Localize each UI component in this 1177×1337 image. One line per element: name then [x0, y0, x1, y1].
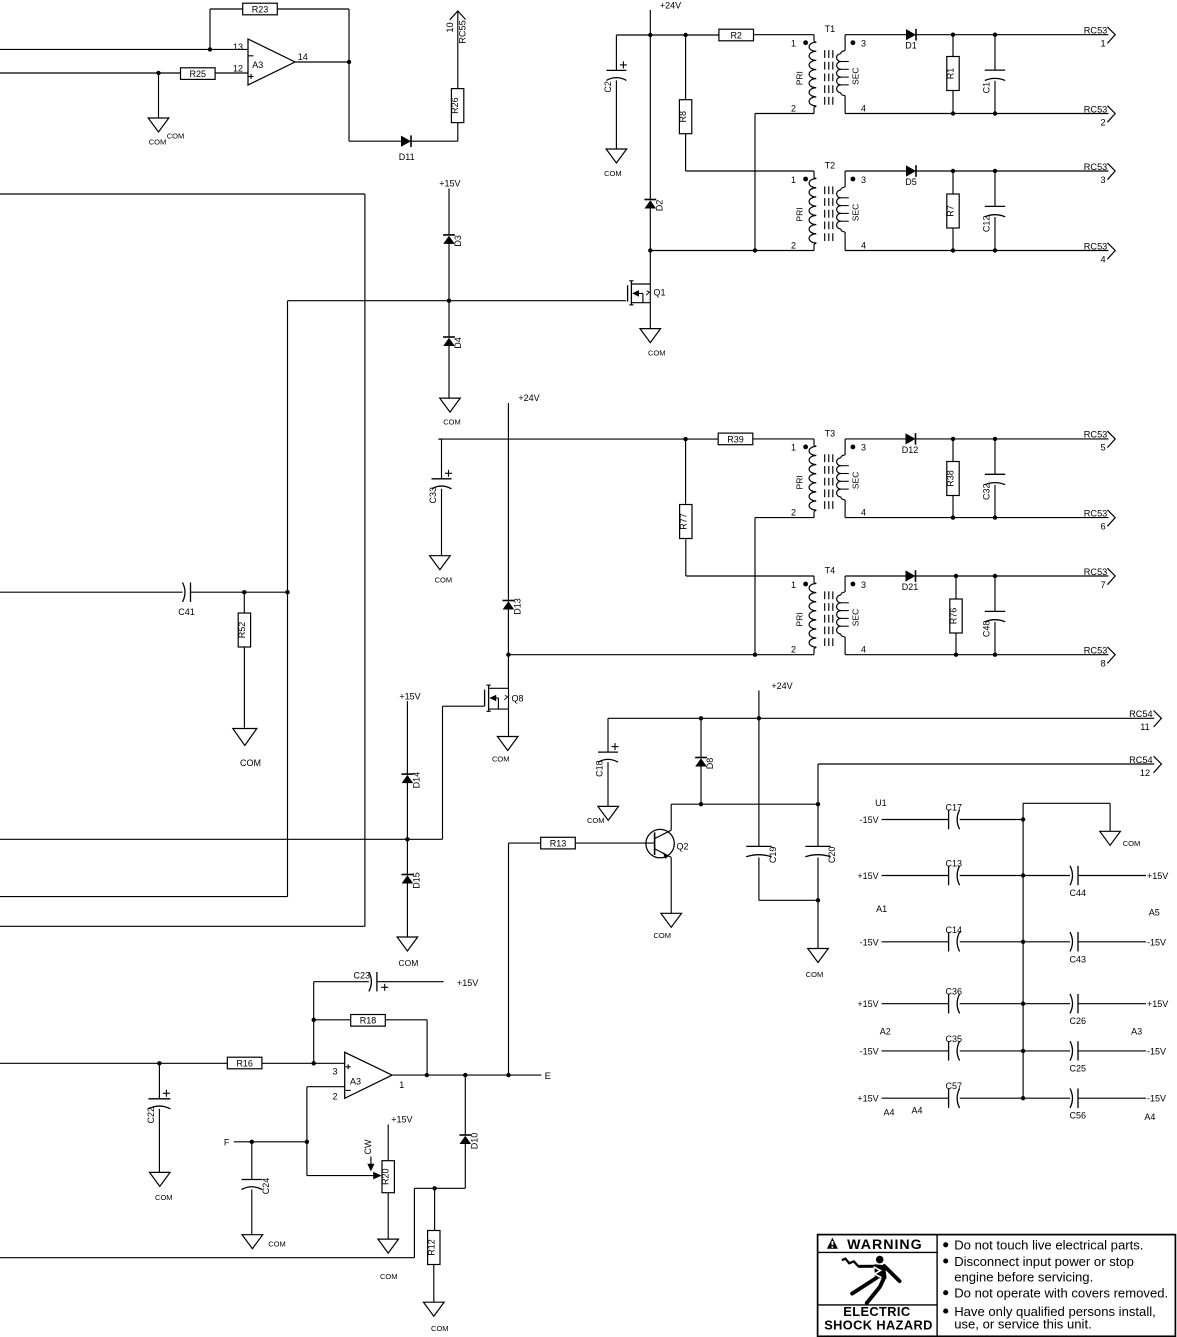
- connector RC53 pin 4: [1084, 241, 1115, 264]
- svg-text:+15V: +15V: [857, 871, 878, 881]
- svg-text:engine before servicing.: engine before servicing.: [954, 1270, 1093, 1285]
- svg-text:R39: R39: [727, 434, 744, 444]
- label A5: [1149, 907, 1160, 917]
- svg-text:2: 2: [791, 240, 796, 250]
- svg-text:2: 2: [791, 507, 796, 517]
- ground COM under Q8: [492, 737, 518, 764]
- svg-text:WARNING: WARNING: [847, 1237, 923, 1253]
- label A2: [880, 1027, 891, 1037]
- wire +24V rail upper: [649, 10, 651, 200]
- transformer T1: [791, 24, 866, 113]
- node junction bus row 3: [1021, 940, 1025, 944]
- svg-text:COM: COM: [240, 758, 261, 768]
- wire Q2 emitter to ground: [670, 857, 672, 913]
- node junction bus row 5: [1021, 1049, 1025, 1053]
- svg-text:D12: D12: [902, 445, 919, 455]
- node junction R1 top: [951, 33, 955, 37]
- svg-text:COM: COM: [587, 816, 605, 825]
- svg-text:PRI: PRI: [794, 207, 804, 221]
- node junction C48 bottom: [993, 653, 997, 657]
- connector RC54 pin 11: [1129, 709, 1161, 732]
- svg-text:R2: R2: [730, 30, 742, 40]
- wire R12 to ground: [433, 1264, 435, 1302]
- svg-text:D14: D14: [411, 772, 421, 789]
- wire +15V stub to D14: [406, 701, 408, 774]
- ground COM under D15: [397, 937, 418, 968]
- svg-text:A1: A1: [876, 904, 887, 914]
- svg-text:D11: D11: [399, 152, 415, 162]
- wire R20 to ground: [387, 1193, 389, 1239]
- svg-text:D3: D3: [453, 235, 463, 247]
- capacitor C14 row: [860, 925, 1024, 952]
- node junction R1 bottom: [951, 111, 955, 115]
- wire T1 sec top to D1: [845, 34, 906, 36]
- diode D11: [399, 135, 415, 162]
- svg-text:C20: C20: [827, 847, 837, 864]
- wire input line to op-amp A3 pin 13: [0, 48, 248, 50]
- svg-text:D10: D10: [469, 1133, 479, 1150]
- svg-text:C36: C36: [946, 987, 963, 997]
- svg-text:D15: D15: [411, 872, 421, 889]
- svg-text:COM: COM: [435, 576, 453, 585]
- ground COM under Q2: [653, 913, 681, 940]
- svg-text:-15V: -15V: [1147, 937, 1166, 947]
- node junction R76 top: [954, 574, 958, 578]
- node junction F line: [305, 1140, 309, 1144]
- wire R26 up to connector RC55: [457, 12, 459, 89]
- svg-text:R8: R8: [678, 111, 688, 123]
- ground COM under R12: [424, 1302, 449, 1333]
- svg-text:+15V: +15V: [391, 1115, 412, 1125]
- wire T1 sec bottom rail: [845, 113, 1108, 115]
- svg-text:-15V: -15V: [860, 815, 879, 825]
- svg-text:C22: C22: [146, 1107, 156, 1124]
- ground COM under Q1: [640, 329, 666, 358]
- svg-text:C35: C35: [946, 1034, 963, 1044]
- svg-text:RC53: RC53: [1084, 430, 1108, 440]
- resistor R39: [686, 433, 814, 445]
- svg-text:R20: R20: [381, 1168, 391, 1185]
- capacitor C44 row: [1023, 866, 1168, 898]
- node junction T1 pin2 drop: [753, 248, 757, 252]
- transistor Q2 (BJT): [646, 829, 689, 858]
- wire +24V stub: [758, 691, 760, 719]
- capacitor C26 row: [1023, 994, 1168, 1026]
- svg-text:1: 1: [1100, 39, 1105, 49]
- wire output down-right to D11: [349, 62, 402, 141]
- svg-text:C26: C26: [1070, 1016, 1087, 1026]
- diode D10: [459, 1133, 479, 1150]
- svg-text:1: 1: [791, 443, 796, 453]
- wire C33 line: [438, 438, 685, 440]
- diode D12: [902, 433, 919, 455]
- svg-text:C48: C48: [982, 621, 992, 638]
- ground COM under C18: [587, 806, 619, 825]
- svg-text:3: 3: [1100, 175, 1105, 185]
- svg-text:C14: C14: [946, 925, 963, 935]
- node junction on pin-12 line: [156, 71, 160, 75]
- label A4 left a: [883, 1108, 894, 1118]
- wire capacitor-bank common bus: [1022, 803, 1024, 1098]
- svg-text:C43: C43: [1070, 954, 1087, 964]
- electric shock icon: [842, 1256, 900, 1303]
- node junction bus row 6: [1021, 1096, 1025, 1100]
- resistor R16: [227, 1057, 262, 1069]
- label A4 right: [1144, 1112, 1155, 1122]
- svg-text:COM: COM: [604, 169, 622, 178]
- connector RC53 pin 1: [1084, 26, 1115, 49]
- wire T3 pin2 drop: [755, 518, 814, 655]
- node junction rail/T2 pin 2 line: [648, 248, 652, 252]
- svg-text:R52: R52: [237, 622, 247, 639]
- svg-text:R26: R26: [450, 97, 460, 114]
- svg-text:R7: R7: [946, 205, 956, 217]
- svg-text:COM: COM: [1123, 839, 1141, 848]
- svg-text:RC54: RC54: [1129, 755, 1153, 765]
- svg-text:C17: C17: [946, 803, 963, 813]
- diode D5: [905, 165, 917, 187]
- svg-text:F: F: [224, 1137, 230, 1147]
- svg-text:14: 14: [298, 52, 308, 62]
- ground COM under C22: [150, 1172, 173, 1202]
- node junction R38 bottom: [951, 515, 955, 519]
- node junction C32 bottom: [993, 515, 997, 519]
- resistor R38: [946, 439, 960, 518]
- connector RC53 pin 5: [1084, 430, 1115, 453]
- capacitor C32: [982, 439, 1006, 518]
- svg-text:PRI: PRI: [794, 71, 804, 85]
- resistor R52: [237, 613, 251, 647]
- wire wiper leg: [307, 1175, 374, 1177]
- wire +15V to D3: [448, 189, 450, 235]
- capacitor C25 row: [1023, 1041, 1166, 1073]
- resistor R26: [450, 89, 464, 123]
- svg-text:A4: A4: [1144, 1112, 1155, 1122]
- svg-text:T1: T1: [825, 24, 836, 34]
- connector RC55 pin 10: [445, 11, 467, 44]
- capacitor C23: [314, 971, 444, 992]
- svg-text:5: 5: [1100, 443, 1105, 453]
- node junction D10 tap: [463, 1073, 467, 1077]
- connector RC53 pin 7: [1084, 567, 1115, 590]
- diode D13: [503, 598, 523, 615]
- node junction C12 top: [993, 169, 997, 173]
- wire F line: [234, 1141, 307, 1143]
- capacitor C20: [805, 764, 837, 900]
- wire Q8 drain-source rail: [508, 688, 510, 736]
- wire D4 to ground: [448, 346, 450, 398]
- wire T4 sec top to D21: [845, 575, 905, 577]
- transistor Q1 (MOSFET): [628, 281, 666, 305]
- svg-text:C13: C13: [946, 859, 963, 869]
- label CW: [363, 1139, 373, 1154]
- ground COM under D4: [440, 398, 461, 427]
- svg-text:D4: D4: [453, 337, 463, 349]
- svg-text:T2: T2: [825, 160, 836, 170]
- wire left edge to C41: [0, 591, 183, 593]
- node junction C22 tap: [157, 1061, 161, 1065]
- node junction R2/R8: [683, 33, 687, 37]
- power +15V near Q8: [399, 692, 420, 702]
- svg-text:1: 1: [791, 175, 796, 185]
- svg-text:C1: C1: [982, 82, 992, 94]
- svg-text:+15V: +15V: [857, 999, 878, 1009]
- svg-text:+15V: +15V: [1147, 871, 1168, 881]
- wire R52 top: [243, 592, 245, 613]
- wire bracket outer top: [0, 193, 365, 195]
- svg-text:RC53: RC53: [1084, 26, 1108, 36]
- resistor R77: [678, 439, 692, 576]
- svg-text:COM: COM: [431, 1324, 449, 1333]
- power +24V middle label: [518, 393, 539, 403]
- wire R2 to T1 pin 1: [754, 34, 815, 36]
- wire D1 to RC53-1: [916, 34, 1109, 36]
- svg-text:T4: T4: [825, 565, 836, 575]
- capacitor C57 row: [857, 1081, 1023, 1108]
- warning label box: [818, 1235, 1176, 1337]
- node junction C41 line at bracket: [285, 590, 289, 594]
- capacitor C18: [595, 718, 619, 806]
- node junction gate line / D3-D4: [447, 299, 451, 303]
- svg-text:+15V: +15V: [399, 692, 420, 702]
- svg-text:Do not touch live electrical p: Do not touch live electrical parts.: [954, 1238, 1143, 1253]
- svg-text:2: 2: [1100, 117, 1105, 127]
- svg-text:PRI: PRI: [794, 612, 804, 626]
- wire Q1 drain-source rail: [649, 284, 651, 329]
- svg-text:2: 2: [791, 103, 796, 113]
- wire bus hook to ground: [1023, 803, 1110, 831]
- capacitor C24: [242, 1142, 272, 1235]
- wire E-node line: [392, 1074, 541, 1076]
- svg-text:R13: R13: [550, 839, 567, 849]
- svg-text:SEC: SEC: [850, 472, 860, 489]
- node junction T3pin2 drop at rail: [753, 653, 757, 657]
- wiper arrow into R20: [373, 1172, 381, 1180]
- diode D4: [443, 337, 463, 349]
- svg-text:1: 1: [399, 1080, 404, 1090]
- svg-text:Disconnect input power or stop: Disconnect input power or stop: [954, 1254, 1134, 1269]
- wire T2 sec bottom rail: [845, 250, 1108, 252]
- capacitor C2: [603, 35, 627, 149]
- capacitor C48: [982, 576, 1006, 655]
- svg-text:3: 3: [332, 1067, 337, 1077]
- svg-text:+15V: +15V: [439, 178, 460, 188]
- svg-text:7: 7: [1100, 580, 1105, 590]
- svg-text:D21: D21: [902, 582, 919, 592]
- wire feedback right leg: [277, 9, 349, 62]
- transistor Q8 (MOSFET): [485, 685, 524, 711]
- op-amp U-A3 (pins 13,12,14): [233, 39, 308, 85]
- node junction bus row 4: [1021, 1002, 1025, 1006]
- svg-text:RC53: RC53: [1084, 646, 1108, 656]
- svg-text:12: 12: [1140, 768, 1150, 778]
- power +24V top rail label: [660, 1, 681, 11]
- capacitor C41: [178, 583, 195, 618]
- svg-text:4: 4: [861, 507, 866, 517]
- svg-text:+15V: +15V: [857, 1094, 878, 1104]
- node junction R18 output: [425, 1073, 429, 1077]
- ground COM under C24: [242, 1235, 286, 1249]
- wire D21 to RC53-7: [916, 575, 1109, 577]
- warning header: [827, 1237, 923, 1253]
- wire D2 to Q1 drain node: [649, 208, 651, 284]
- wire bracket inner vertical: [287, 301, 289, 897]
- wire R77 to T4 pin 1: [686, 575, 814, 577]
- svg-text:RC53: RC53: [1084, 508, 1108, 518]
- svg-text:10: 10: [445, 22, 455, 32]
- svg-text:COM: COM: [155, 1193, 173, 1202]
- wire D13 to Q8 drain: [507, 609, 509, 688]
- svg-text:13: 13: [233, 42, 243, 52]
- svg-text:C56: C56: [1070, 1111, 1087, 1121]
- wire rail to R2: [650, 34, 719, 36]
- wire ground stub from pin-12 line: [158, 73, 160, 118]
- connector RC53 pin 6: [1084, 508, 1115, 531]
- svg-text:C41: C41: [178, 607, 195, 617]
- wire bracket outer bottom: [0, 925, 365, 927]
- svg-text:R38: R38: [946, 470, 956, 487]
- resistor R12: [426, 1188, 440, 1264]
- svg-text:4: 4: [861, 103, 866, 113]
- wire D14 to junction: [406, 783, 408, 875]
- node junction C48 top: [993, 574, 997, 578]
- svg-text:D13: D13: [512, 598, 522, 615]
- wire inverting net riser: [313, 982, 315, 1064]
- connector RC54 pin 12: [1129, 755, 1161, 778]
- capacitor C35 row: [860, 1034, 1024, 1061]
- svg-text:COM: COM: [653, 931, 671, 940]
- node F label: [224, 1137, 230, 1147]
- svg-text:3: 3: [861, 443, 866, 453]
- wire +15V to R20: [387, 1125, 389, 1161]
- svg-text:RC53: RC53: [1084, 104, 1108, 114]
- wire D11 to R26: [411, 123, 458, 141]
- electric shock hazard caption: [824, 1304, 933, 1333]
- wire +24V rail middle: [507, 403, 509, 601]
- svg-text:COM: COM: [380, 1272, 398, 1281]
- svg-text:CW: CW: [363, 1139, 373, 1154]
- resistor R23: [243, 3, 278, 15]
- svg-text:SEC: SEC: [850, 609, 860, 626]
- wire bracket inner bottom: [0, 896, 288, 898]
- resistor R13: [509, 837, 655, 849]
- svg-text:C23: C23: [353, 971, 370, 981]
- wire Q2 collector: [670, 804, 672, 830]
- svg-text:-15V: -15V: [1147, 1046, 1166, 1056]
- node junction R76 bottom: [954, 653, 958, 657]
- capacitor C13 row: [857, 859, 1023, 886]
- ground COM under C20: [806, 949, 829, 980]
- svg-text:COM: COM: [149, 138, 167, 147]
- wire input line to R25 (pin 12 net): [0, 72, 181, 74]
- node junction R12 top: [432, 1186, 436, 1190]
- wire T2 pin 2 line: [650, 250, 814, 252]
- wire R52 to ground: [243, 647, 245, 728]
- svg-text:COM: COM: [443, 418, 461, 427]
- diode D3: [443, 235, 463, 247]
- svg-text:3: 3: [861, 580, 866, 590]
- svg-text:A4: A4: [883, 1108, 894, 1118]
- svg-text:+15V: +15V: [1147, 999, 1168, 1009]
- wire to bottom-left rail: [0, 1188, 414, 1257]
- wire D12 to RC53-5: [916, 438, 1109, 440]
- wire bracket outer vertical: [364, 194, 366, 926]
- svg-text:SEC: SEC: [850, 67, 860, 84]
- wire D5 to RC53-3: [916, 170, 1109, 172]
- svg-text:R76: R76: [949, 608, 959, 625]
- capacitor C19: [746, 718, 778, 900]
- node junction R13 riser: [506, 1073, 510, 1077]
- node junction C20 bottom: [816, 898, 820, 902]
- label A3 right: [1131, 1027, 1142, 1037]
- svg-text:RC53: RC53: [1084, 567, 1108, 577]
- capacitor C36 row: [857, 987, 1023, 1014]
- svg-text:A4: A4: [911, 1106, 922, 1116]
- resistor R2: [719, 29, 754, 41]
- svg-text:E: E: [545, 1071, 551, 1082]
- svg-text:-15V: -15V: [860, 937, 879, 947]
- op-amp A3 (pins 3,2,1): [332, 1052, 404, 1101]
- svg-text:R1: R1: [946, 68, 956, 80]
- svg-text:+24V: +24V: [518, 393, 539, 403]
- wire pin-3 input line: [0, 1062, 345, 1064]
- wire T4 sec bottom rail: [845, 654, 1108, 656]
- svg-text:A3: A3: [1131, 1027, 1142, 1037]
- node junction C1 top: [993, 33, 997, 37]
- svg-text:1: 1: [791, 39, 796, 49]
- svg-text:PRI: PRI: [794, 475, 804, 489]
- svg-text:C57: C57: [946, 1081, 963, 1091]
- svg-text:COM: COM: [268, 1239, 286, 1248]
- svg-text:A3: A3: [350, 1077, 361, 1087]
- resistor R18: [314, 1015, 427, 1076]
- svg-text:R77: R77: [678, 513, 688, 530]
- wire D8 to collector line: [700, 766, 702, 804]
- svg-text:4: 4: [1100, 254, 1105, 264]
- node junction R7 bottom: [951, 248, 955, 252]
- svg-text:C19: C19: [768, 847, 778, 864]
- ground COM under C33: [430, 556, 453, 585]
- capacitor C43 row: [1023, 932, 1166, 964]
- svg-text:RC53: RC53: [1084, 162, 1108, 172]
- wire D3 to D4: [448, 244, 450, 337]
- wire op-amp output: [295, 61, 349, 63]
- svg-text:COM: COM: [398, 958, 418, 968]
- svg-text:+24V: +24V: [771, 681, 792, 691]
- wire gate net horizontal: [0, 838, 443, 840]
- svg-text:2: 2: [332, 1091, 337, 1101]
- svg-text:SEC: SEC: [850, 204, 860, 221]
- svg-text:12: 12: [233, 64, 243, 74]
- svg-text:3: 3: [861, 39, 866, 49]
- wire T3/T4 bottom rail: [508, 654, 814, 656]
- wire C19 bottom to C20 bottom: [759, 899, 818, 901]
- wire C41 to inner bracket: [191, 591, 288, 593]
- diode D2: [644, 200, 664, 212]
- node junction C24 tap: [250, 1140, 254, 1144]
- wire R8 top: [685, 35, 687, 100]
- node junction collector line at C20: [816, 802, 820, 806]
- diode D15: [402, 872, 422, 889]
- node junction +24V rail: [757, 716, 761, 720]
- wire Q1 gate line: [288, 300, 626, 302]
- diode D8: [695, 718, 715, 769]
- svg-text:D8: D8: [705, 758, 715, 770]
- svg-text:Q8: Q8: [512, 694, 524, 704]
- svg-text:3: 3: [861, 175, 866, 185]
- wire D15 to ground: [406, 883, 408, 937]
- ground COM under R52: [233, 729, 261, 769]
